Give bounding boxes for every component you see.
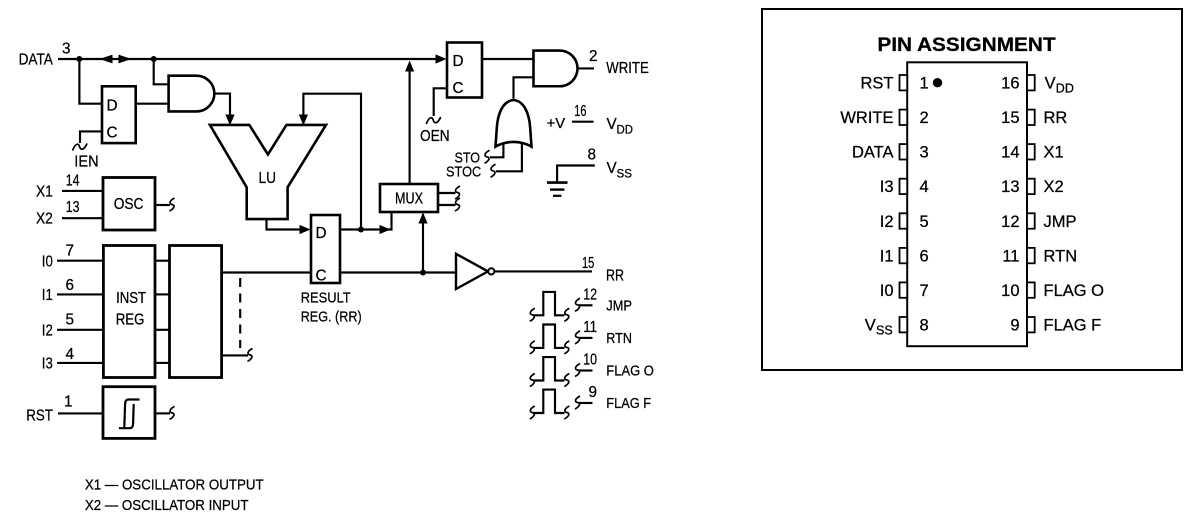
wire I2 input pin 5 xyxy=(57,329,103,331)
svg-text:RESULT: RESULT xyxy=(301,290,351,307)
svg-text:+V: +V xyxy=(547,115,566,132)
wire RR feedback to LU right input xyxy=(303,94,361,230)
node FLAG O pin 10 label xyxy=(583,352,654,380)
svg-text:15: 15 xyxy=(582,255,594,272)
pin 6 left pin box xyxy=(900,248,908,263)
svg-text:C: C xyxy=(316,268,327,285)
svg-text:V: V xyxy=(1045,75,1056,93)
squiggle OEN wire break xyxy=(426,117,441,124)
wire X2 input pin 13 xyxy=(62,217,103,219)
wire IEN to input latch C xyxy=(80,131,102,143)
node VSS label (pin 8) xyxy=(865,316,893,337)
wire LU output to result register D input xyxy=(267,219,302,229)
squiggle JMP left break xyxy=(530,308,535,321)
wire I1 input pin 6 xyxy=(57,293,103,295)
svg-text:IEN: IEN xyxy=(74,154,98,171)
wire MUX select stub lower xyxy=(438,204,456,206)
svg-text:5: 5 xyxy=(66,312,75,329)
svg-text:2: 2 xyxy=(589,48,598,65)
squiggle OSC output break xyxy=(170,198,175,211)
svg-text:JMP: JMP xyxy=(1044,213,1077,231)
svg-text:13: 13 xyxy=(66,199,80,216)
wire result register D output toward MUX xyxy=(340,213,392,230)
svg-text:RST: RST xyxy=(26,408,53,425)
svg-text:I2: I2 xyxy=(42,323,53,340)
IC package body xyxy=(907,62,1027,346)
wire result register C output to inverter xyxy=(340,271,456,273)
AND gate G2 (WRITE) xyxy=(534,51,578,87)
squiggle FLAG O right break xyxy=(564,374,569,387)
svg-text:1: 1 xyxy=(64,394,73,411)
svg-text:PIN ASSIGNMENT: PIN ASSIGNMENT xyxy=(877,35,1056,56)
instruction register INST REG xyxy=(103,246,155,378)
squiggle STO break xyxy=(485,150,490,163)
pin 5 left pin box xyxy=(900,213,908,228)
wire inverter output to RR pin xyxy=(495,270,593,272)
svg-text:4: 4 xyxy=(66,346,75,363)
svg-text:RR: RR xyxy=(1044,109,1068,127)
svg-text:16: 16 xyxy=(1001,75,1019,93)
wire output latch to AND2 top input xyxy=(482,58,534,60)
svg-text:D: D xyxy=(453,53,464,70)
svg-text:RTN: RTN xyxy=(606,330,632,347)
node WRITE output pin 2 xyxy=(589,48,649,77)
node RTN pin 11 label xyxy=(583,319,632,347)
svg-text:7: 7 xyxy=(920,282,929,300)
junction dot on DATA rail left xyxy=(76,56,82,62)
arrowhead into LU left input xyxy=(225,115,234,126)
wire X1 input pin 14 xyxy=(62,190,103,192)
svg-text:D: D xyxy=(107,98,118,115)
pin 16 right pin box xyxy=(1027,75,1035,90)
pin 9 right pin box xyxy=(1027,317,1035,332)
svg-text:SS: SS xyxy=(617,169,633,181)
schmitt trigger block U4 xyxy=(103,387,155,439)
wire VSS pin stub xyxy=(557,166,595,182)
wire STO input to OR gate xyxy=(490,138,503,157)
svg-text:D: D xyxy=(316,225,327,242)
svg-text:RST: RST xyxy=(861,75,894,93)
squiggle MUX stub upper break xyxy=(455,186,460,199)
svg-text:X1: X1 xyxy=(1044,144,1064,162)
pin 15 right pin box xyxy=(1027,110,1035,125)
wire VDD pin stub xyxy=(572,121,594,123)
svg-text:SS: SS xyxy=(876,324,893,338)
squiggle JMP pin break xyxy=(575,298,580,311)
pin 11 right pin box xyxy=(1027,248,1035,263)
svg-text:JMP: JMP xyxy=(606,297,632,314)
wire I0 input pin 7 xyxy=(57,260,103,262)
squiggle IEN wire break xyxy=(73,144,88,151)
junction dot on result register D output xyxy=(358,227,364,233)
pin 13 right pin box xyxy=(1027,179,1035,194)
squiggle FLAG F pin break xyxy=(575,396,580,409)
pin 12 right pin box xyxy=(1027,213,1035,228)
svg-text:X2: X2 xyxy=(1044,178,1064,196)
svg-text:C: C xyxy=(107,125,118,142)
svg-text:9: 9 xyxy=(588,384,597,401)
svg-text:8: 8 xyxy=(920,316,929,334)
junction dot on DATA rail right xyxy=(151,56,157,62)
svg-text:2: 2 xyxy=(920,109,929,127)
wire MUX select stub upper xyxy=(438,192,456,194)
svg-text:I3: I3 xyxy=(880,178,894,196)
inverter G4 xyxy=(456,254,494,289)
squiggle FLAG O pin break xyxy=(575,364,580,377)
svg-text:12: 12 xyxy=(1001,213,1019,231)
AND gate G1 xyxy=(169,76,215,112)
svg-text:I1: I1 xyxy=(880,247,894,265)
pulse waveform FLAG O xyxy=(534,357,565,380)
svg-text:I1: I1 xyxy=(42,287,53,304)
wire AND1 output to LU left input xyxy=(214,94,230,116)
squiggle RTN pin break xyxy=(575,331,580,344)
ground symbol xyxy=(547,183,568,196)
svg-text:I0: I0 xyxy=(42,254,53,271)
wire OSC output stub xyxy=(155,204,170,206)
svg-text:3: 3 xyxy=(62,41,71,58)
svg-text:8: 8 xyxy=(588,147,597,164)
dashed control bus line xyxy=(239,278,241,348)
svg-text:I0: I0 xyxy=(880,282,894,300)
svg-text:11: 11 xyxy=(1002,247,1019,265)
pin 8 left pin box xyxy=(900,317,908,332)
pulse waveform JMP xyxy=(534,292,565,315)
svg-text:V: V xyxy=(865,316,876,334)
node DATA input label xyxy=(19,41,71,69)
wire OR output to AND2 bottom input xyxy=(514,77,534,98)
node RESULT REG. (RR) label xyxy=(301,290,362,326)
pin 1 left pin box xyxy=(900,75,908,90)
node X2 pin 13 label xyxy=(36,199,80,228)
svg-text:3: 3 xyxy=(920,144,929,162)
svg-text:X2: X2 xyxy=(36,211,53,228)
squiggle STOC break xyxy=(491,164,496,177)
squiggle schmitt output break xyxy=(170,406,175,419)
svg-text:10: 10 xyxy=(583,352,597,369)
pin 7 left pin box xyxy=(900,282,908,297)
squiggle MUX stub lower break xyxy=(455,198,460,211)
instruction decoder block xyxy=(170,246,222,378)
node JMP pin 12 label xyxy=(583,286,632,314)
wire RST input pin 1 xyxy=(58,412,103,414)
svg-text:STOC: STOC xyxy=(446,164,481,181)
wire schmitt output stub xyxy=(155,412,170,414)
pin assignment outer frame xyxy=(762,9,1182,370)
logic unit LU funnel xyxy=(210,125,326,219)
svg-text:16: 16 xyxy=(574,103,586,120)
node I0 pin 7 label xyxy=(42,243,74,271)
svg-text:12: 12 xyxy=(583,286,597,303)
pin 3 left pin box xyxy=(900,144,908,159)
svg-text:X1 — OSCILLATOR OUTPUT: X1 — OSCILLATOR OUTPUT xyxy=(85,476,264,493)
arrowhead on D output wire toward MUX xyxy=(380,225,391,234)
node I3 pin 4 label xyxy=(42,346,75,373)
node RR output pin 15 xyxy=(582,255,624,285)
squiggle FLAG O left break xyxy=(530,374,535,387)
squiggle RTN right break xyxy=(564,341,569,354)
svg-text:FLAG O: FLAG O xyxy=(606,363,654,380)
svg-text:DATA: DATA xyxy=(852,144,894,162)
wire STOC input to OR gate xyxy=(496,140,522,171)
svg-text:FLAG F: FLAG F xyxy=(606,395,651,412)
svg-text:LU: LU xyxy=(259,170,277,187)
squiggle JMP right break xyxy=(564,308,569,321)
wire MUX output up to data rail xyxy=(409,70,411,184)
squiggle decoder stub break xyxy=(248,348,253,361)
arrowhead into LU right input xyxy=(299,115,308,126)
svg-text:DATA: DATA xyxy=(19,52,54,69)
svg-text:DD: DD xyxy=(1056,82,1074,96)
input latch U1 (D/C) xyxy=(102,86,136,143)
pin 14 right pin box xyxy=(1027,144,1035,159)
svg-text:14: 14 xyxy=(1001,144,1019,162)
svg-text:6: 6 xyxy=(66,277,75,294)
arrowhead into MUX bottom xyxy=(418,213,427,224)
wire I3 input pin 4 xyxy=(57,362,103,364)
pulse waveform RTN xyxy=(534,325,565,348)
wire FLAG O pin stub xyxy=(579,369,593,371)
junction dot on RR output line xyxy=(420,270,426,276)
svg-text:RR: RR xyxy=(606,268,624,285)
svg-text:4: 4 xyxy=(920,178,929,196)
squiggle FLAG F right break xyxy=(564,406,569,419)
wire AND2 output to WRITE pin xyxy=(578,67,595,69)
svg-text:X2 — OSCILLATOR INPUT: X2 — OSCILLATOR INPUT xyxy=(85,497,249,514)
OR gate G3 xyxy=(496,100,532,147)
svg-text:MUX: MUX xyxy=(395,191,423,208)
wire DATA rail to AND1 top input xyxy=(154,59,169,84)
wire input latch output to AND1 bottom input xyxy=(136,103,169,105)
arrowhead into output latch D xyxy=(436,54,447,63)
svg-text:1: 1 xyxy=(920,75,929,93)
svg-text:I3: I3 xyxy=(42,356,53,373)
result register U2 (D/C) xyxy=(311,215,340,285)
svg-text:14: 14 xyxy=(66,173,80,190)
wire DATA rail to input latch D xyxy=(79,59,102,104)
wire bus INST REG to decoder xyxy=(155,261,170,363)
bidirectional arrow pair on DATA rail xyxy=(100,55,132,64)
svg-text:WRITE: WRITE xyxy=(840,109,893,127)
multiplexer MUX xyxy=(380,184,438,212)
wire DATA rail xyxy=(58,58,438,60)
wire decoder lower output stub xyxy=(222,354,248,356)
svg-text:15: 15 xyxy=(1001,109,1019,127)
svg-text:6: 6 xyxy=(920,247,929,265)
node VSS pin 8 xyxy=(588,147,633,181)
wire JMP pin stub xyxy=(579,304,593,306)
svg-text:DD: DD xyxy=(617,125,633,137)
node FLAG F pin 9 label xyxy=(588,384,651,412)
pin 1 index dot xyxy=(933,78,942,87)
svg-text:WRITE: WRITE xyxy=(606,60,649,77)
pin 2 left pin box xyxy=(900,110,908,125)
svg-text:OEN: OEN xyxy=(420,128,450,145)
oscillator OSC block xyxy=(103,178,155,231)
node X1 pin 14 label xyxy=(36,173,80,201)
arrowhead MUX output joining rail xyxy=(405,61,414,72)
svg-text:13: 13 xyxy=(1001,178,1019,196)
svg-text:OSC: OSC xyxy=(114,196,144,213)
svg-text:FLAG F: FLAG F xyxy=(1044,316,1102,334)
svg-text:7: 7 xyxy=(66,243,75,260)
squiggle FLAG F left break xyxy=(530,406,535,419)
node RST pin 1 label xyxy=(26,394,72,425)
pin 4 left pin box xyxy=(900,179,908,194)
squiggle RTN left break xyxy=(530,341,535,354)
svg-text:FLAG O: FLAG O xyxy=(1044,282,1105,300)
node I1 pin 6 label xyxy=(42,277,74,304)
svg-text:INST: INST xyxy=(116,290,146,307)
svg-text:9: 9 xyxy=(1010,316,1019,334)
wire instruction decoder to result register C input xyxy=(222,271,311,273)
wire RR line to MUX bottom input xyxy=(422,214,424,273)
wire FLAG F pin stub xyxy=(579,402,593,404)
wire OEN to output latch C xyxy=(434,88,447,116)
pin 10 right pin box xyxy=(1027,282,1035,297)
svg-text:X1: X1 xyxy=(36,184,53,201)
arrowhead into result register D xyxy=(300,225,311,234)
svg-text:10: 10 xyxy=(1001,282,1019,300)
wire RTN pin stub xyxy=(579,337,593,339)
output latch U3 (D/C) xyxy=(447,43,482,98)
svg-text:5: 5 xyxy=(920,213,929,231)
svg-text:I2: I2 xyxy=(880,213,894,231)
svg-text:C: C xyxy=(453,80,464,97)
pulse waveform FLAG F xyxy=(534,390,565,413)
node VDD label (pin 16) xyxy=(1045,75,1074,96)
svg-text:RTN: RTN xyxy=(1044,247,1078,265)
svg-text:11: 11 xyxy=(583,319,597,336)
node I2 pin 5 label xyxy=(42,312,74,340)
node VDD pin 16 xyxy=(574,103,633,137)
svg-text:REG. (RR): REG. (RR) xyxy=(301,309,362,326)
svg-text:REG: REG xyxy=(116,312,145,329)
